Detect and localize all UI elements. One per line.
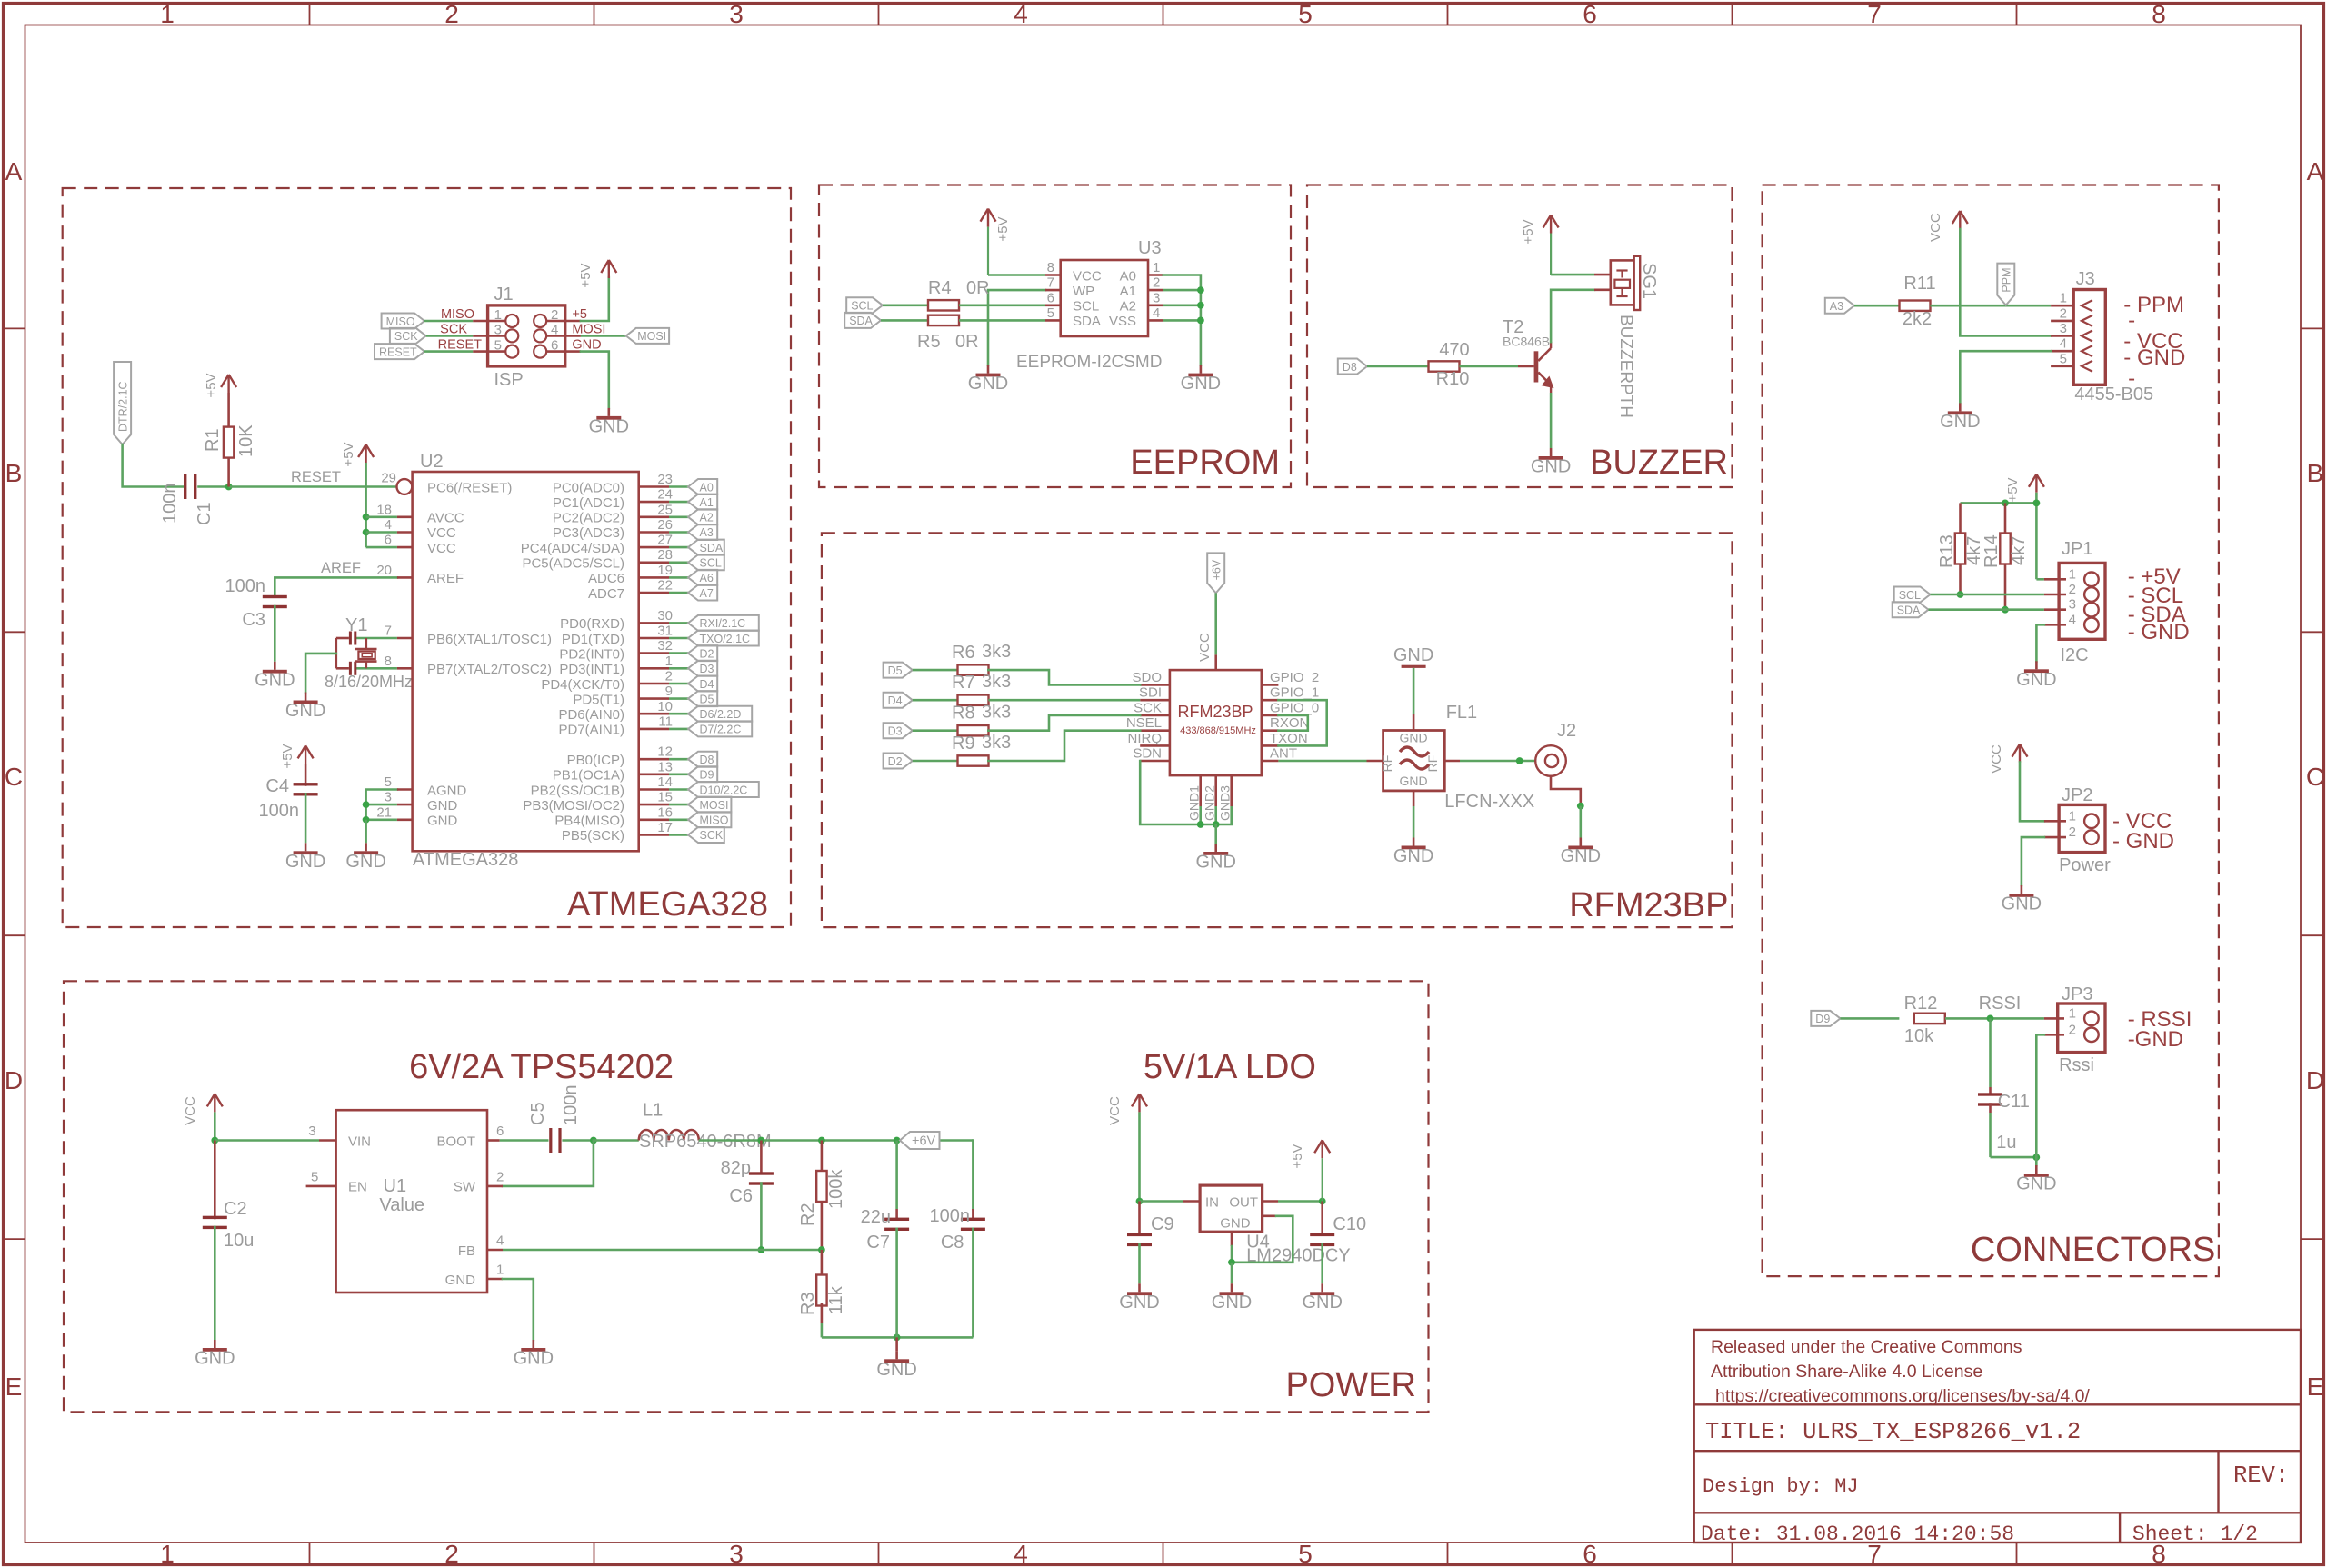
filter FL1 body (1383, 731, 1445, 791)
connector J1 body (488, 305, 565, 366)
svg-text:J2: J2 (1557, 721, 1576, 741)
svg-text:3: 3 (2069, 597, 2076, 613)
connector J3 body (2073, 290, 2105, 385)
wire gnd drop power (895, 1337, 898, 1351)
SG1 pin1 stub (1594, 274, 1611, 276)
svg-text:Attribution Share-Alike 4.0 Li: Attribution Share-Alike 4.0 License (1711, 1362, 1982, 1382)
svg-text:GND: GND (876, 1360, 916, 1380)
ground below U4 (1231, 1283, 1233, 1292)
svg-text:3: 3 (729, 0, 744, 28)
svg-text:PD2(INT0): PD2(INT0) (559, 646, 624, 662)
svg-text:4: 4 (1014, 0, 1028, 28)
svg-text:GPIO_0: GPIO_0 (1270, 701, 1319, 716)
wire FB net (503, 1249, 822, 1252)
svg-text:PC6(/RESET): PC6(/RESET) (427, 480, 512, 495)
svg-text:BUZZERPTH: BUZZERPTH (1616, 315, 1635, 418)
svg-text:I2C: I2C (2061, 645, 2089, 665)
resistor R3 (816, 1275, 826, 1306)
U3 pin8 stub (1045, 274, 1061, 276)
junction GND1 (1197, 821, 1204, 828)
resistor R8 (958, 725, 989, 735)
junction r14 top (2002, 500, 2009, 507)
wire +5V to U3 pin8 (988, 274, 1045, 276)
net label PPM flag (1997, 264, 2014, 305)
svg-text:SDO: SDO (1132, 670, 1162, 685)
svg-text:NSEL: NSEL (1126, 715, 1162, 731)
svg-text:7: 7 (1867, 0, 1882, 28)
junction VSS (1197, 317, 1204, 325)
svg-text:16: 16 (657, 804, 673, 820)
wire SW (503, 1141, 594, 1186)
svg-text:1u: 1u (1996, 1133, 2016, 1153)
svg-text:Value: Value (379, 1195, 424, 1215)
RFM GND1 pin (1199, 775, 1202, 806)
svg-text:PC2(ADC2): PC2(ADC2) (553, 511, 624, 526)
svg-text:REV:: REV: (2233, 1463, 2289, 1489)
svg-text:GND: GND (514, 1349, 554, 1369)
buzzer SG1 body (1611, 260, 1634, 305)
net label D5 (rfm) (884, 663, 913, 678)
svg-text:GND: GND (1400, 731, 1428, 745)
wire AREF (275, 577, 397, 596)
svg-text:GND: GND (285, 701, 325, 721)
svg-text:GND: GND (1195, 853, 1235, 873)
svg-text:82p: 82p (721, 1158, 751, 1178)
svg-text:D6/2.2D: D6/2.2D (700, 708, 742, 721)
VCC supply connectors j3 (1959, 211, 1961, 229)
svg-text:C11: C11 (1998, 1092, 2030, 1112)
svg-text:VCC: VCC (1197, 633, 1213, 662)
svg-text:3: 3 (2060, 321, 2067, 336)
wire bottom gnd rail power (822, 1336, 974, 1339)
svg-text:ATMEGA328: ATMEGA328 (413, 850, 518, 870)
svg-text:1: 1 (1153, 260, 1160, 275)
+5V supply jp1 (2035, 474, 2037, 493)
wire C11 gnd row (1991, 1156, 2037, 1159)
wire VCC to JP2 pin1 (2020, 763, 2044, 822)
wire C8 bottom (972, 1228, 974, 1338)
resistor R7 (958, 695, 989, 705)
svg-text:PD4(XCK/T0): PD4(XCK/T0) (541, 677, 624, 693)
wire SG1 pin2 to T2 collector (1551, 290, 1594, 342)
svg-text:3: 3 (385, 790, 392, 805)
resistor R1 (224, 427, 234, 458)
svg-text:C7: C7 (866, 1233, 890, 1253)
svg-text:5: 5 (385, 774, 392, 790)
svg-text:PC0(ADC0): PC0(ADC0) (553, 480, 624, 495)
svg-text:4: 4 (385, 517, 392, 533)
title block divider 1 (1694, 1403, 2301, 1405)
svg-text:+6V: +6V (1211, 559, 1223, 580)
ground below crystal (305, 693, 307, 701)
svg-text:PD3(INT1): PD3(INT1) (559, 662, 624, 677)
wire RESET to J1 (424, 350, 473, 353)
wire to ground rfm (1214, 824, 1217, 844)
net label D9 (688, 766, 717, 782)
svg-text:C9: C9 (1151, 1214, 1174, 1234)
wire C8 top (972, 1141, 974, 1210)
RFM pin GPIO_2 (1262, 684, 1279, 686)
svg-text:GND2: GND2 (1203, 785, 1217, 821)
svg-text:SCK: SCK (440, 322, 467, 336)
svg-text:7: 7 (385, 624, 392, 639)
capacitor C5 (549, 1128, 552, 1153)
VCC supply power (214, 1094, 215, 1112)
net label MISO (isp) (382, 314, 424, 329)
svg-text:12: 12 (657, 744, 673, 760)
svg-text:ANT: ANT (1270, 746, 1297, 762)
svg-text:R10: R10 (1436, 369, 1470, 389)
net label D2 (688, 645, 717, 661)
RFM GND3 pin (1230, 775, 1233, 806)
svg-text:GPIO_2: GPIO_2 (1270, 670, 1319, 685)
ground above FL1 (1402, 665, 1426, 668)
svg-text:6: 6 (385, 533, 392, 548)
wire GND J1 (581, 352, 609, 408)
inductor L1 (594, 1139, 639, 1142)
svg-text:D3: D3 (700, 663, 714, 675)
wire R9 to NSEL (988, 731, 1140, 761)
svg-text:2k2: 2k2 (1903, 309, 1932, 329)
svg-text:1: 1 (2069, 566, 2076, 582)
capacitor C1 (184, 474, 186, 499)
svg-text:BUZZER: BUZZER (1590, 444, 1728, 482)
IC U2 ATMEGA328 body (413, 472, 639, 851)
FL1 right pin stub (1444, 760, 1460, 763)
wire R13 top (1959, 503, 1962, 533)
wire C3 to ground (274, 605, 276, 662)
VCC supply ldo (1138, 1094, 1140, 1112)
J2 shield to ground (1551, 776, 1581, 806)
wire VCC ldo down (1138, 1112, 1141, 1201)
svg-text:SCL: SCL (851, 300, 873, 313)
frame column ticks (309, 4, 311, 25)
RFM pin SDO (1140, 684, 1170, 686)
svg-text:-: - (2128, 366, 2135, 391)
svg-text:GND: GND (195, 1349, 235, 1369)
svg-text:EEPROM: EEPROM (1130, 444, 1280, 482)
svg-text:AREF: AREF (321, 560, 361, 576)
svg-text:19: 19 (657, 563, 673, 578)
net label D4 (rfm) (884, 693, 913, 708)
net label D9 (conn) (1811, 1011, 1840, 1026)
ground below J3 (1959, 403, 1962, 411)
ground below JP1 (2035, 661, 2038, 669)
svg-text:4: 4 (2060, 336, 2067, 352)
J1 pin2 stub (546, 320, 581, 323)
svg-text:100n: 100n (225, 576, 266, 596)
ground below JP2 (2021, 885, 2023, 894)
svg-text:U1: U1 (384, 1176, 407, 1196)
wire J3 pin4 to ground (1960, 351, 2051, 403)
wire GPIO_1 to TXON (1278, 700, 1326, 745)
svg-text:5: 5 (1298, 1540, 1313, 1568)
net label A7 (688, 585, 717, 601)
svg-text:SDA: SDA (700, 542, 724, 554)
wire WP to ground (988, 290, 1045, 365)
svg-text:SDA: SDA (849, 315, 873, 327)
RFM VCC pin stub (1214, 654, 1217, 670)
wire SCL to JP1 (1931, 594, 2044, 596)
title block REV divider (2217, 1451, 2219, 1513)
wire FL1 bottom to ground (1413, 791, 1415, 806)
svg-text:D: D (5, 1066, 23, 1094)
capacitor C10 (1310, 1233, 1334, 1236)
svg-text:D2: D2 (700, 647, 714, 660)
net label DTR/2.1C (114, 362, 131, 444)
junction R2 (818, 1137, 825, 1144)
net label TXO/2.1C (688, 631, 759, 646)
wire R2 top (821, 1141, 824, 1172)
svg-text:A7: A7 (700, 587, 714, 600)
wire C2 to ground (214, 1226, 216, 1340)
junction FB-R3 (818, 1246, 825, 1253)
svg-text:D8: D8 (700, 754, 714, 766)
svg-text:NIRQ: NIRQ (1128, 731, 1163, 746)
CONNECTORS section box (1763, 185, 2219, 1277)
svg-text:PD5(T1): PD5(T1) (573, 692, 624, 707)
svg-text:5: 5 (1047, 305, 1054, 321)
wire R3 bottom (821, 1303, 824, 1323)
svg-text:6: 6 (1047, 290, 1054, 305)
svg-text:2: 2 (2069, 824, 2076, 840)
svg-text:VIN: VIN (348, 1134, 371, 1149)
resistor R14 (2000, 534, 2010, 564)
svg-text:FL1: FL1 (1446, 703, 1477, 723)
svg-text:100n: 100n (259, 801, 300, 821)
svg-text:PB7(XTAL2/TOSC2): PB7(XTAL2/TOSC2) (427, 662, 552, 677)
capacitor C7 (884, 1218, 909, 1221)
wire +5V rail jp1 (2035, 493, 2038, 580)
title block divider 3 (1694, 1512, 2301, 1513)
junction gnd rail (894, 1334, 901, 1342)
wire C6 bottom to FB (760, 1182, 763, 1250)
svg-text:L1: L1 (643, 1101, 663, 1121)
JP2 pins (2044, 820, 2066, 823)
resistor R13 (1955, 534, 1965, 564)
wire ANT to FL1 (1278, 760, 1366, 763)
svg-text:3k3: 3k3 (982, 672, 1011, 692)
svg-text:AGND: AGND (427, 783, 467, 798)
net label SCK (688, 827, 724, 843)
svg-text:30: 30 (657, 608, 673, 624)
svg-text:4455-B05: 4455-B05 (2074, 385, 2153, 404)
ground below U1 (532, 1340, 534, 1348)
svg-text:C2: C2 (224, 1199, 247, 1219)
junction at J2 (1516, 757, 1523, 764)
svg-text:0R: 0R (966, 278, 990, 298)
svg-text:D4: D4 (888, 694, 903, 707)
svg-text:3: 3 (1153, 290, 1160, 305)
svg-text:R4: R4 (928, 278, 952, 298)
svg-text:R5: R5 (917, 332, 941, 352)
U4 GND pin down (1231, 1232, 1233, 1246)
net label A3 (conn) (1825, 298, 1854, 314)
wire GND to FL1 (1413, 668, 1415, 714)
svg-text:D9: D9 (700, 769, 714, 782)
ground below RFM (1214, 844, 1217, 852)
svg-text:VCC: VCC (1928, 213, 1943, 242)
svg-text:RSSI: RSSI (1979, 994, 2022, 1014)
resistor R9 (958, 755, 989, 765)
svg-text:C: C (2306, 763, 2324, 791)
wire D8 to R10 (1367, 365, 1429, 368)
RFM GND2 pin (1214, 775, 1217, 806)
svg-text:4: 4 (2069, 612, 2076, 627)
svg-text:Rssi: Rssi (2059, 1055, 2094, 1075)
FL1 top pin stub (1413, 714, 1415, 731)
svg-text:20: 20 (376, 563, 392, 578)
svg-text:PB1(OC1A): PB1(OC1A) (553, 768, 624, 784)
svg-text:2: 2 (444, 0, 459, 28)
J3 pin stubs and contacts (2051, 305, 2073, 307)
wire C1 to junction (197, 485, 228, 488)
net label D3 (688, 661, 717, 676)
junction U4 GND (1228, 1259, 1235, 1266)
svg-text:4: 4 (496, 1233, 504, 1249)
svg-text:ISP: ISP (494, 370, 524, 390)
svg-text:GND: GND (1212, 1293, 1252, 1313)
svg-text:10K: 10K (236, 424, 256, 457)
svg-text:8: 8 (385, 654, 392, 669)
wire +5V to JP1 pin1 (2036, 578, 2044, 581)
wire R3 top (821, 1250, 824, 1278)
J1 pin circles (505, 315, 518, 327)
svg-text:SDA: SDA (1897, 604, 1921, 617)
svg-text:GND: GND (345, 852, 385, 872)
ground at WP (987, 365, 990, 374)
svg-text:SCL: SCL (1899, 589, 1921, 602)
svg-text:LFCN-XXX: LFCN-XXX (1444, 792, 1534, 812)
wire C4 to ground (305, 793, 307, 843)
svg-text:MOSI: MOSI (700, 799, 729, 812)
wire C11 bottom (1989, 1103, 1992, 1113)
svg-text:1: 1 (496, 1263, 504, 1278)
net label A2 (688, 509, 717, 524)
svg-text:SCK: SCK (700, 829, 724, 842)
svg-text:EN: EN (348, 1180, 367, 1195)
junction jp3 gnd (2032, 1154, 2040, 1161)
wire JP1 pin4 to ground (2036, 624, 2044, 661)
U1 VIN stub (319, 1139, 336, 1142)
svg-text:11: 11 (658, 714, 673, 729)
svg-text:MISO: MISO (441, 307, 474, 322)
junction RSSI (1987, 1015, 1994, 1023)
svg-text:SCL: SCL (1073, 299, 1099, 315)
wire U4 GND loop (1232, 1216, 1293, 1263)
svg-text:POWER: POWER (1285, 1366, 1416, 1404)
net label A1 (688, 494, 717, 510)
svg-text:FB: FB (458, 1243, 475, 1259)
svg-text:R14: R14 (1982, 534, 2002, 568)
POWER section box (64, 981, 1429, 1412)
svg-text:29: 29 (381, 471, 396, 486)
svg-text:D7/2.2C: D7/2.2C (700, 724, 742, 736)
svg-text:VCC: VCC (427, 541, 456, 556)
svg-text:R8: R8 (952, 704, 975, 724)
svg-text:J3: J3 (2076, 269, 2095, 289)
ground power rail (895, 1351, 898, 1359)
svg-text:A6: A6 (700, 572, 714, 584)
wire to U4 IN (1140, 1200, 1184, 1203)
net label SCL (jp1) (1894, 587, 1931, 603)
junction A2 (1197, 302, 1204, 309)
U3 pin7 stub (1045, 289, 1061, 292)
svg-text:VCC: VCC (1989, 744, 2004, 774)
svg-text:RESET: RESET (291, 469, 341, 485)
svg-text:D8: D8 (1343, 361, 1357, 374)
svg-text:R6: R6 (952, 643, 975, 663)
wire R11 to J3 pin1 (1931, 305, 2052, 307)
U4 OUT stub (1263, 1200, 1278, 1203)
svg-text:C3: C3 (242, 610, 265, 630)
svg-text:23: 23 (657, 472, 673, 487)
svg-text:D4: D4 (700, 678, 714, 691)
wire R14 bottom (2004, 564, 2007, 610)
svg-text:1: 1 (665, 654, 673, 669)
svg-text:+5V: +5V (1290, 1144, 1305, 1168)
resistor R10 (1429, 361, 1460, 371)
svg-text:100n: 100n (160, 484, 180, 524)
svg-text:4k7: 4k7 (2009, 536, 2029, 565)
wire VCC to J3 pin3 (1960, 229, 2051, 336)
svg-text:VCC: VCC (427, 525, 456, 541)
RFM pin SDN (1140, 760, 1170, 763)
svg-text:https://creativecommons.org/li: https://creativecommons.org/licenses/by-… (1715, 1386, 2090, 1406)
svg-text:2: 2 (2069, 1022, 2076, 1037)
connector JP2 body (2059, 804, 2105, 852)
ground below J1 (607, 408, 610, 416)
junction GND2 (1213, 821, 1220, 828)
RFM23BP section box (822, 533, 1733, 927)
svg-text:BC846B: BC846B (1503, 335, 1550, 349)
IC RFM23BP body (1170, 670, 1262, 775)
capacitor C8 (961, 1218, 985, 1221)
svg-text:J1: J1 (494, 285, 514, 305)
wire C10 to ground (1321, 1243, 1323, 1284)
resistor R11 (1900, 301, 1931, 311)
RFM pin TXON (1262, 744, 1279, 747)
wire AGND/GND pins (366, 790, 397, 820)
wire SDA to JP1 (1929, 608, 2044, 611)
svg-text:A1: A1 (700, 496, 714, 509)
+5V supply above C4 (305, 745, 306, 764)
junction +5v rail (2033, 500, 2041, 507)
net label D5 (688, 691, 717, 706)
net label A3 (688, 524, 717, 540)
svg-text:13: 13 (657, 759, 673, 774)
svg-text:+5V: +5V (2005, 477, 2021, 502)
svg-text:1: 1 (160, 1540, 175, 1568)
wire R8 to SCK (988, 715, 1140, 731)
wire MISO to J1 (424, 320, 473, 323)
net label MISO (688, 812, 731, 827)
title block outer box (1694, 1330, 2301, 1543)
+5V supply at J1 (608, 260, 610, 278)
junction SW node (590, 1137, 597, 1144)
svg-text:+5V: +5V (1521, 219, 1536, 244)
capacitor C9 (1127, 1233, 1152, 1236)
J1 pin1 stub (473, 320, 505, 323)
RFM pin NIRQ (1140, 744, 1170, 747)
svg-text:2: 2 (496, 1169, 504, 1184)
svg-text:SCK: SCK (394, 330, 418, 343)
net label SCL (688, 554, 724, 570)
svg-text:24: 24 (657, 487, 673, 503)
ground below C2 (214, 1340, 216, 1348)
wire FL1 to J2 (1460, 760, 1535, 763)
JP3 pins (2044, 1017, 2064, 1020)
